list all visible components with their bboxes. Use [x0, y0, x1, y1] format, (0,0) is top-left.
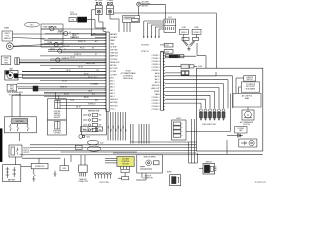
A/C control big box	[233, 94, 261, 108]
svg-text:IAC C: IAC C	[155, 78, 160, 81]
long wire row A	[18, 88, 106, 90]
svg-text:IAC 2: IAC 2	[110, 89, 115, 92]
svg-text:A/C REQ: A/C REQ	[110, 101, 118, 104]
svg-text:FUSE 4: FUSE 4	[181, 32, 187, 34]
svg-text:C17 INJ 5: C17 INJ 5	[152, 109, 160, 111]
wire row 5 with splice S4	[48, 49, 106, 53]
svg-text:M: M	[247, 115, 249, 117]
switch assembly box	[81, 109, 106, 135]
svg-text:SHUT: SHUT	[10, 88, 14, 90]
svg-text:FUEL INJECTORS: FUEL INJECTORS	[202, 124, 215, 126]
svg-text:FUSE 9: FUSE 9	[194, 32, 200, 34]
svg-text:OXYGEN: OXYGEN	[54, 115, 61, 117]
svg-text:PRESSURE: PRESSURE	[142, 4, 151, 6]
svg-text:VEHICLE SPEED: VEHICLE SPEED	[143, 157, 156, 159]
A/C high pressure switch splice circle	[137, 1, 151, 8]
svg-text:BK1: BK1	[110, 128, 112, 131]
svg-text:C13 INJ 1: C13 INJ 1	[152, 55, 160, 57]
svg-text:K16: K16	[95, 84, 98, 86]
PCM right pin rows with labels	[152, 55, 165, 111]
throttle position sensor label box	[2, 31, 12, 41]
svg-text:C14 INJ 2: C14 INJ 2	[152, 100, 160, 102]
svg-text:IAC 4: IAC 4	[110, 95, 115, 98]
wires to label boxes	[236, 78, 248, 110]
transmission control module box	[122, 16, 139, 23]
engine junction block outer box	[197, 68, 263, 151]
svg-text:G101: G101	[90, 129, 94, 131]
oxygen sensor label box	[7, 84, 23, 96]
verticals down to bottom right connector	[189, 119, 198, 163]
bottom right inner box with parts	[239, 139, 257, 147]
svg-text:COIL: COIL	[70, 12, 74, 14]
svg-text:SW OUTPUT: SW OUTPUT	[246, 86, 255, 88]
svg-text:(CLUTCH): (CLUTCH)	[243, 124, 250, 126]
svg-text:G100: G100	[82, 129, 86, 131]
splice drop into TCM	[138, 6, 140, 16]
svg-text:O2 SIG: O2 SIG	[110, 71, 117, 73]
svg-text:OR 18: OR 18	[70, 57, 75, 59]
svg-text:HORN: HORN	[167, 171, 171, 173]
svg-text:MOTOR: MOTOR	[122, 163, 129, 165]
svg-text:C15 INJ 3: C15 INJ 3	[152, 103, 160, 105]
wire from relay K1 bottom down to PCM	[99, 15, 106, 32]
svg-text:SENSOR: SENSOR	[54, 117, 61, 119]
wires fuse to funnel	[184, 34, 197, 41]
long wire row B spanning page	[44, 91, 263, 93]
svg-text:PK 20: PK 20	[80, 47, 84, 49]
wire from fuses area down to ECU box	[197, 43, 206, 68]
svg-text:FUSE BLOCK: FUSE BLOCK	[35, 166, 45, 168]
small ground symbol	[54, 171, 57, 176]
wire from starter relay down	[16, 157, 61, 165]
wires battery area	[21, 158, 39, 166]
svg-text:BK3: BK3	[115, 128, 117, 131]
svg-text:CCD +: CCD +	[110, 108, 115, 110]
svg-text:BR 18: BR 18	[84, 97, 89, 99]
svg-text:UPSTRM: UPSTRM	[54, 111, 61, 113]
svg-text:ASD OUT: ASD OUT	[152, 87, 161, 90]
svg-text:IGNITION: IGNITION	[23, 148, 30, 150]
sensor oval 1	[79, 135, 90, 139]
svg-text:SPD SIG: SPD SIG	[110, 105, 118, 107]
ASD relay K1	[95, 0, 102, 15]
svg-text:JUNCT: JUNCT	[176, 118, 181, 120]
fan junction dot	[91, 35, 92, 36]
data link connector oval label	[25, 22, 40, 27]
wires down from middle	[64, 155, 85, 166]
label boxes under fuses	[182, 37, 199, 40]
left vertical of AC column	[186, 94, 230, 132]
svg-text:C168: C168	[198, 66, 202, 68]
PCM right connector strip	[161, 52, 164, 111]
svg-text:F: F	[182, 124, 183, 126]
crankshaft position sensor label box	[1, 56, 11, 65]
svg-text:BAT A21: BAT A21	[110, 33, 117, 36]
svg-text:DG OR: DG OR	[64, 46, 70, 48]
ECU label box lower	[241, 82, 259, 92]
svg-text:RD/WT 18: RD/WT 18	[78, 41, 86, 43]
small dark sensor component	[33, 86, 38, 91]
svg-text:F/PMP: F/PMP	[154, 91, 160, 93]
svg-text:DB 18: DB 18	[76, 107, 81, 109]
wire label row C106	[141, 50, 173, 54]
svg-text:GND: GND	[110, 43, 115, 45]
svg-text:C106: C106	[165, 51, 169, 53]
svg-text:G107: G107	[62, 168, 66, 170]
svg-text:POS: POS	[4, 60, 7, 62]
wire from connector left	[199, 154, 203, 168]
highlighted iac motor box (yellow)	[117, 157, 134, 167]
ECU label box upper	[244, 76, 256, 82]
relay block small box	[235, 127, 247, 134]
svg-text:DG 18: DG 18	[62, 80, 67, 82]
blower motor component	[240, 110, 254, 126]
wire from relay K1 to left	[92, 10, 107, 35]
svg-text:BK4: BK4	[118, 125, 120, 128]
svg-text:SWITCHES: SWITCHES	[16, 121, 24, 123]
svg-text:C14 INJ 2: C14 INJ 2	[152, 58, 160, 60]
svg-text:LB 18: LB 18	[88, 91, 92, 93]
svg-text:TACH: TACH	[155, 93, 160, 96]
svg-text:OXYGEN: OXYGEN	[54, 133, 61, 135]
svg-text:IAC B: IAC B	[155, 75, 160, 78]
svg-text:O2 HTR: O2 HTR	[110, 74, 117, 76]
wire from relay K2 bottom	[110, 15, 119, 32]
fuse F1 box	[179, 27, 188, 34]
camshaft/distributor dark component	[5, 68, 22, 80]
svg-text:SENSOR: SENSOR	[4, 38, 12, 40]
svg-text:DWNSTRM: DWNSTRM	[53, 130, 62, 132]
svg-text:MODULE): MODULE)	[123, 78, 133, 80]
data link connector box	[41, 24, 63, 47]
PCM left pin rows with labels	[13, 33, 120, 110]
svg-text:BK5: BK5	[120, 128, 122, 131]
svg-text:F: F	[182, 132, 183, 134]
ignition coil (dark component)	[69, 12, 87, 22]
svg-text:GY/RD 18: GY/RD 18	[88, 103, 95, 105]
connector C101 box with pins	[164, 19, 176, 32]
svg-text:F: F	[182, 136, 183, 138]
svg-text:GEN FLD: GEN FLD	[152, 85, 160, 87]
svg-text:CONTROL: CONTROL	[123, 19, 131, 21]
wire upper horizontal to far right drop	[113, 13, 216, 68]
fuel injectors row	[200, 109, 226, 126]
wire label row C105	[141, 43, 173, 47]
wires into yellow box from left	[105, 159, 117, 163]
wire below yellow box	[118, 173, 129, 180]
4WD switch connector (dark)	[203, 161, 216, 174]
svg-text:CKP SIG: CKP SIG	[110, 50, 118, 52]
svg-text:CONNECTOR: CONNECTOR	[78, 181, 89, 183]
ignition switch element below	[32, 169, 35, 181]
svg-text:BK2: BK2	[113, 125, 115, 128]
svg-text:COIL: COIL	[71, 19, 75, 21]
diode symbol	[235, 134, 243, 137]
svg-text:5V SUP: 5V SUP	[110, 46, 117, 48]
label box pair row	[80, 127, 102, 132]
svg-text:C13 INJ 1: C13 INJ 1	[152, 97, 160, 99]
svg-text:K6: K6	[92, 47, 94, 49]
injector bus wires	[165, 76, 233, 109]
svg-text:OUTPUT: OUTPUT	[23, 152, 29, 154]
svg-text:BK0: BK0	[108, 125, 110, 128]
svg-text:INJ 2: INJ 2	[110, 81, 114, 83]
A/C pressure switch assembly box	[4, 117, 36, 133]
svg-text:K21: K21	[92, 93, 95, 95]
svg-text:IGNITION: IGNITION	[70, 14, 78, 16]
connector cluster row 1	[165, 64, 202, 68]
svg-text:IGNITION: IGNITION	[246, 77, 253, 79]
long bottom bus wire	[20, 154, 197, 156]
wire labels on left fan	[60, 33, 99, 109]
left margin label	[4, 27, 9, 30]
svg-text:SBEC: SBEC	[110, 40, 116, 42]
PCM left connector strip	[106, 32, 109, 112]
svg-text:K4: K4	[93, 63, 95, 65]
svg-text:SWITCH: SWITCH	[23, 150, 29, 152]
PCM module name label	[121, 71, 136, 81]
svg-text:DB 18 940: DB 18 940	[141, 45, 149, 47]
svg-text:BK 18: BK 18	[84, 73, 88, 75]
wire row 1 with splice S1	[41, 27, 106, 33]
starter relay box	[9, 145, 30, 157]
watermark	[255, 180, 266, 184]
svg-text:IAC 3: IAC 3	[110, 92, 115, 95]
small box row	[75, 145, 100, 151]
wire across box bottom	[227, 136, 235, 141]
vehicle speed sensor box	[137, 155, 163, 180]
svg-text:JOINT CONN: JOINT CONN	[99, 182, 108, 184]
svg-text:S134: S134	[86, 136, 90, 138]
svg-text:YL 18: YL 18	[70, 100, 74, 102]
svg-text:THROT: THROT	[4, 33, 10, 35]
svg-text:IAC A: IAC A	[155, 72, 160, 75]
yellow box pins below	[120, 167, 129, 173]
distributor wires right	[22, 72, 106, 79]
svg-text:INJ 3: INJ 3	[110, 84, 114, 86]
connector C101 label	[168, 17, 172, 19]
PCM bottom drop wires	[108, 112, 128, 141]
svg-text:FixKick: FixKick	[255, 180, 266, 184]
fuse F2 box	[192, 27, 201, 34]
svg-text:20: 20	[69, 32, 71, 34]
svg-text:C105: C105	[165, 45, 169, 47]
funnel joint to ground	[183, 41, 195, 50]
svg-text:BK/LB 18: BK/LB 18	[72, 37, 79, 39]
svg-text:K7: K7	[95, 54, 97, 56]
wires from switch box	[20, 133, 48, 141]
svg-text:S112: S112	[100, 142, 104, 144]
TCM box bottom drop wires	[124, 22, 130, 32]
svg-text:CONNECTOR: CONNECTOR	[143, 177, 154, 179]
svg-text:RD 18: RD 18	[64, 93, 69, 95]
connector cluster row 2	[165, 71, 216, 76]
wire row 4 with splice S3	[44, 42, 106, 48]
svg-text:INJ 1: INJ 1	[110, 77, 114, 79]
svg-text:SENSOR: SENSOR	[145, 175, 152, 177]
wires from O2 boxes up to bus	[56, 93, 59, 99]
data link connector 2 with pins	[78, 165, 89, 183]
svg-text:DOWN: DOWN	[10, 90, 15, 92]
svg-text:SWITCH: SWITCH	[247, 79, 253, 81]
CKP connector pair	[15, 58, 20, 65]
branch wires from connector C101 dropping down	[143, 21, 164, 38]
wire from splice to right and down	[141, 4, 166, 19]
svg-text:SENS RTN: SENS RTN	[110, 62, 120, 64]
svg-text:IGN A22: IGN A22	[110, 36, 117, 39]
svg-text:SWITCH: SWITCH	[206, 161, 212, 163]
svg-text:IAT SIG: IAT SIG	[110, 64, 117, 67]
svg-text:SWITCH: SWITCH	[142, 6, 149, 8]
fusible link flat box	[31, 163, 48, 168]
svg-text:C17 INJ 5: C17 INJ 5	[152, 67, 160, 69]
ground splice box G107	[60, 166, 69, 171]
wires below VSS box	[136, 173, 146, 180]
svg-text:POS: POS	[6, 36, 9, 38]
wires TPS to PCM fan	[12, 34, 45, 39]
fuel pump relay K2	[107, 0, 114, 15]
svg-text:FUSE: FUSE	[182, 27, 186, 29]
svg-text:C18 INJ 6: C18 INJ 6	[152, 70, 160, 72]
svg-text:VT/WT 18: VT/WT 18	[74, 54, 81, 56]
inline connector chain row	[165, 55, 196, 58]
wire row 3	[48, 37, 106, 39]
svg-text:ECT SIG: ECT SIG	[110, 68, 118, 70]
svg-text:GY 18: GY 18	[78, 66, 83, 68]
svg-text:K11: K11	[94, 77, 97, 79]
wire row 2 with splice S2	[45, 31, 106, 37]
connector pin row C125	[95, 173, 112, 184]
scan artifact black bar	[0, 128, 2, 162]
wire row 6 with splice S5	[50, 58, 106, 62]
svg-text:C15 INJ 3: C15 INJ 3	[152, 61, 160, 63]
svg-text:FUSE: FUSE	[194, 27, 198, 29]
small relay box bottom	[167, 171, 181, 185]
svg-text:BK7: BK7	[125, 128, 127, 131]
upstream O2 sensor box	[48, 99, 67, 120]
svg-text:IAC D: IAC D	[155, 81, 160, 84]
MAP sensor circle	[6, 43, 44, 50]
svg-text:TN 18: TN 18	[66, 70, 70, 72]
svg-text:PK/BK 18: PK/BK 18	[60, 87, 67, 89]
svg-text:C16 INJ 4: C16 INJ 4	[152, 106, 160, 108]
svg-text:TPS SIG: TPS SIG	[110, 59, 118, 61]
svg-text:TO IGNITION: TO IGNITION	[246, 84, 255, 86]
dark segment bar	[169, 55, 178, 58]
engine junction block inner outline	[197, 140, 263, 154]
CKP wires right	[19, 60, 106, 63]
sensor oval 2	[87, 140, 103, 144]
bottom right wire band	[30, 142, 197, 153]
long wire row C spanning page	[44, 94, 106, 96]
downstream O2 sensor box	[48, 120, 67, 135]
svg-text:C16 INJ 4: C16 INJ 4	[152, 64, 160, 66]
svg-text:GEN FLD: GEN FLD	[110, 99, 118, 101]
svg-text:20: 20	[55, 27, 57, 29]
svg-text:C13: C13	[96, 70, 99, 72]
svg-text:F: F	[182, 128, 183, 130]
wires from switch box up to bus	[12, 93, 44, 117]
svg-text:VT/WT 18: VT/WT 18	[141, 51, 148, 53]
svg-text:K22: K22	[95, 100, 98, 102]
svg-text:SENS: SENS	[4, 63, 8, 65]
second bottom wire	[61, 151, 137, 153]
svg-text:BK6: BK6	[123, 125, 125, 128]
right area drop wires	[131, 124, 149, 144]
svg-text:WT 18: WT 18	[88, 77, 93, 79]
wire from ignition coil to junction	[87, 20, 106, 29]
svg-text:IAC 1: IAC 1	[110, 86, 115, 89]
battery box	[3, 165, 21, 182]
junction fuse stack box	[172, 118, 187, 140]
svg-text:DB/YL 18: DB/YL 18	[72, 34, 79, 36]
svg-text:CMP SIG: CMP SIG	[110, 53, 118, 55]
svg-text:MAP SIG: MAP SIG	[110, 55, 118, 58]
